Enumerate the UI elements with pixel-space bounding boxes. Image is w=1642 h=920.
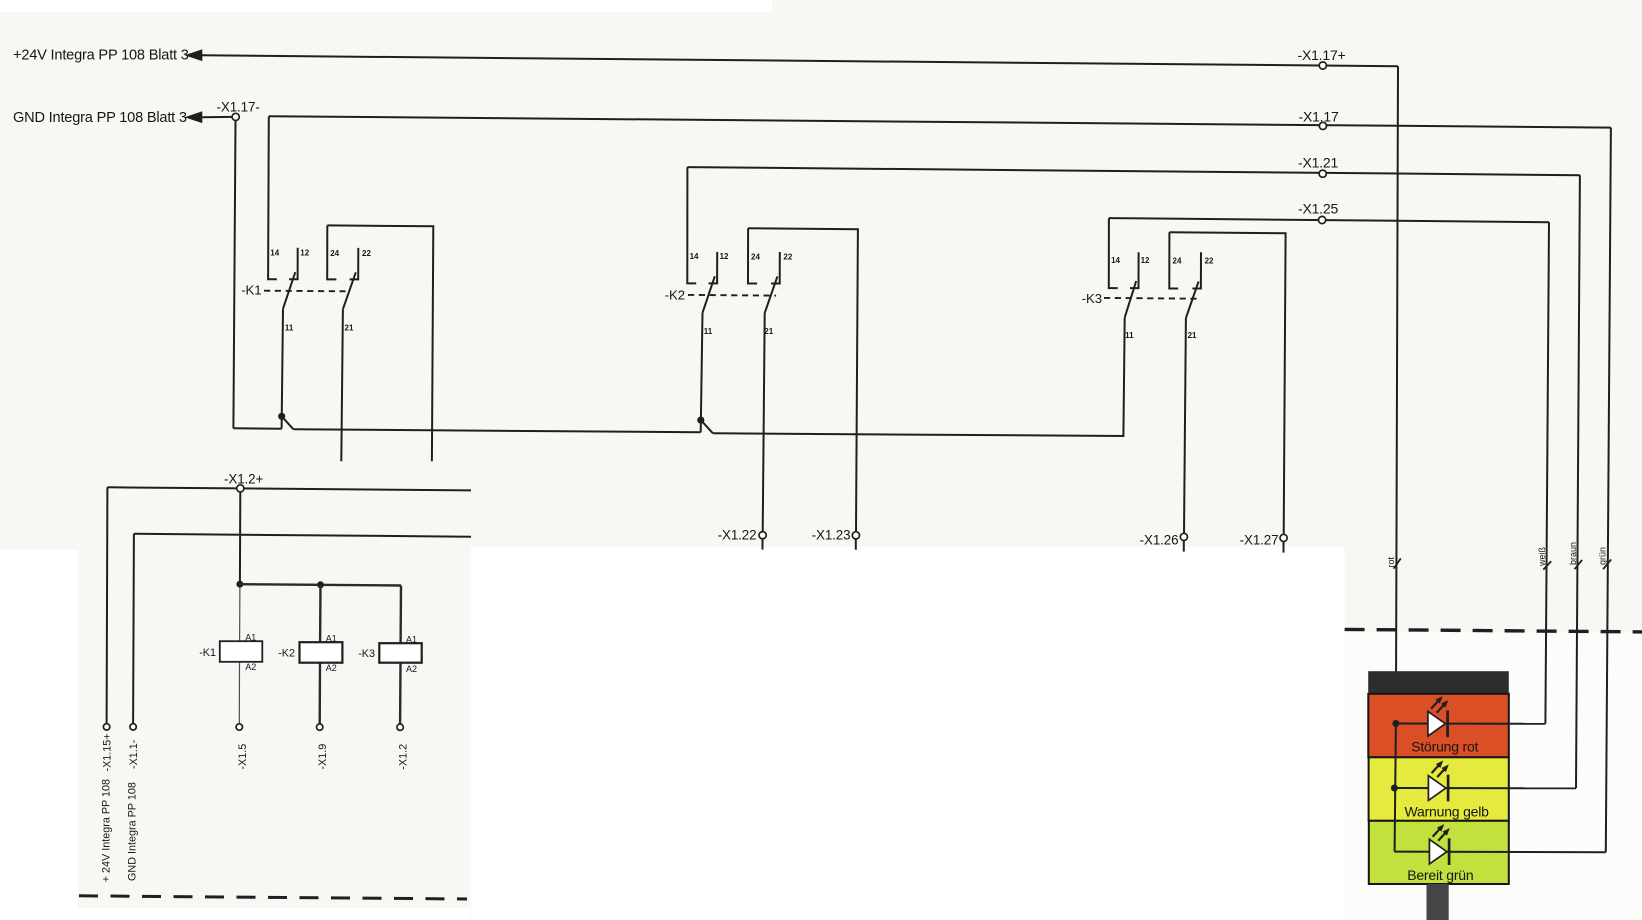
wire gruen vertical (to green lamp)	[1606, 128, 1611, 853]
svg-text:-X1.23: -X1.23	[812, 528, 851, 543]
relay K1 contact terminal 24 riser	[327, 225, 336, 279]
svg-text:-X1.26: -X1.26	[1140, 533, 1179, 548]
relay K3 contact terminal 24 riser	[1169, 232, 1178, 288]
relay K2 contact terminal 24 riser	[748, 228, 757, 283]
svg-text:-X1.25: -X1.25	[1298, 201, 1338, 217]
relay K3 contact arm 1	[1125, 281, 1137, 318]
relay K1 contact terminal 12 stub	[289, 248, 298, 279]
svg-text:-X1.27: -X1.27	[1240, 533, 1279, 548]
wire K1 pin 11 down	[282, 309, 283, 429]
relay K2 contact arm 1	[703, 276, 715, 313]
svg-text:A2: A2	[245, 662, 256, 672]
svg-text:24: 24	[751, 253, 760, 262]
svg-text:A2: A2	[326, 663, 337, 673]
junction node red lamp	[1392, 720, 1399, 727]
wire braun vertical (to yellow lamp)	[1576, 175, 1580, 788]
svg-text:-K2: -K2	[278, 648, 295, 660]
wire GND horizontal 2	[134, 534, 471, 537]
svg-text:-K1: -K1	[199, 647, 216, 659]
svg-text:22: 22	[362, 249, 371, 258]
terminal -X1.1-	[130, 724, 136, 730]
wire tower inner vertical	[1395, 724, 1396, 852]
relay K3 actuation dashed line	[1104, 297, 1197, 300]
relay K2 contact terminal 12 stub	[709, 252, 718, 284]
svg-text:-X1.17+: -X1.17+	[1298, 47, 1346, 63]
svg-text:Warnung gelb: Warnung gelb	[1405, 803, 1490, 819]
svg-text:-X1.15+: -X1.15+	[102, 733, 114, 771]
svg-text:-X1.5: -X1.5	[237, 744, 249, 770]
wire stub below -X1.23	[855, 539, 857, 550]
relay K1 contact terminal 14 riser	[268, 116, 277, 279]
coil K2	[300, 642, 343, 663]
terminal -X1.23	[852, 532, 859, 539]
svg-text:22: 22	[1205, 257, 1214, 266]
wire stub below -X1.27	[1283, 542, 1285, 553]
svg-text:14: 14	[690, 252, 699, 261]
wire K1 bracket top and right	[327, 225, 433, 461]
sheet reference arrow +24V	[185, 49, 203, 61]
terminal -X1.26	[1180, 533, 1187, 540]
sheet reference arrow GND	[185, 111, 203, 123]
relay K2 contact terminal 14 riser	[687, 167, 696, 283]
svg-text:-X1.1-: -X1.1-	[128, 739, 140, 769]
relay K2 contact arm 2	[765, 276, 778, 313]
svg-text:A1: A1	[245, 633, 256, 643]
svg-text:+24V Integra PP 108 Blatt 3: +24V Integra PP 108 Blatt 3	[13, 48, 189, 64]
svg-text:+ 24V Integra PP 108: + 24V Integra PP 108	[101, 779, 113, 882]
svg-text:11: 11	[1125, 331, 1134, 340]
wire stub below -X1.22	[762, 539, 764, 550]
LED red	[1428, 711, 1446, 736]
wire K2 pin 21 down to -X1.22	[763, 313, 765, 532]
wire -X1.25 horizontal	[1109, 218, 1549, 222]
terminal -X1.2	[397, 724, 403, 730]
signal tower green lamp	[1369, 821, 1509, 884]
node -X1.17+	[1319, 62, 1326, 69]
svg-text:-X1.17-: -X1.17-	[217, 100, 260, 115]
svg-text:12: 12	[300, 248, 309, 257]
wire left vertical 2 (GND feed)	[132, 534, 135, 724]
relay K2 contact terminal 22 stub	[771, 252, 780, 284]
wire GND horizontal to right edge	[269, 116, 1611, 127]
wire weiss vertical (to red lamp)	[1545, 222, 1549, 724]
terminal -X1.9	[317, 724, 323, 730]
wire coil feed vertical	[239, 492, 241, 584]
terminal -X1.22	[759, 532, 766, 539]
svg-text:-K1: -K1	[241, 283, 261, 298]
svg-text:-K3: -K3	[358, 648, 375, 660]
node -X1.17	[1319, 122, 1326, 129]
svg-text:14: 14	[1111, 256, 1120, 265]
signal tower red lamp	[1368, 694, 1509, 758]
svg-text:24: 24	[330, 249, 339, 258]
LED green	[1429, 839, 1447, 864]
wire K2 bracket top and right to -X1.23	[748, 228, 858, 531]
wire rot vertical (+24V down to tower red lamp)	[1396, 66, 1398, 723]
wire green lamp row	[1395, 851, 1606, 854]
wire -X1.21 horizontal	[687, 167, 1580, 175]
wire from -X1.17- down to bus	[233, 121, 235, 429]
wire +24V horizontal	[202, 55, 1398, 66]
wire K3 coil lead lower	[399, 663, 402, 724]
svg-text:-X1.17: -X1.17	[1299, 109, 1339, 125]
wire K3 pin 21 down to -X1.26	[1184, 318, 1186, 533]
wire bus middle segment	[293, 429, 700, 432]
wire coil bus horizontal	[240, 584, 401, 585]
svg-text:weiß: weiß	[1537, 546, 1547, 567]
wire K3 coil drop	[399, 586, 402, 644]
terminal -X1.5	[236, 724, 242, 730]
svg-text:Bereit grün: Bereit grün	[1407, 867, 1473, 883]
junction node yellow lamp	[1391, 785, 1398, 792]
svg-text:-X1.22: -X1.22	[718, 528, 757, 543]
svg-text:21: 21	[345, 323, 354, 332]
junction node coil bus 1	[236, 581, 243, 588]
svg-text:24: 24	[1173, 257, 1182, 266]
svg-text:-X1.9: -X1.9	[317, 744, 329, 770]
svg-text:A1: A1	[326, 634, 337, 644]
coil circuit: wire -X1.2+ horizontal	[107, 487, 471, 490]
svg-text:-X1.21: -X1.21	[1298, 155, 1338, 171]
wire stub below -X1.26	[1183, 541, 1185, 552]
relay K3 contact terminal 14 riser	[1109, 218, 1118, 288]
wire bus right segment to K3	[713, 318, 1125, 436]
wire yellow lamp row	[1394, 787, 1576, 789]
svg-text:11: 11	[285, 323, 294, 332]
terminal -X1.17-	[232, 113, 239, 120]
relay K1 contact terminal 22 stub	[350, 248, 359, 280]
svg-text:A2: A2	[406, 664, 417, 674]
signal tower stem	[1427, 884, 1449, 920]
junction node at K1 pin 11	[278, 413, 285, 420]
svg-text:grün: grün	[1598, 547, 1608, 565]
svg-text:-K2: -K2	[665, 288, 685, 303]
terminal -X1.2+	[237, 485, 244, 492]
terminal -X1.15+	[103, 724, 109, 730]
node -X1.21	[1319, 170, 1326, 177]
wire GND to terminal	[202, 116, 232, 118]
relay K2 actuation dashed line	[688, 294, 776, 297]
relay K3 contact terminal 12 stub	[1130, 252, 1139, 288]
svg-text:21: 21	[1188, 331, 1197, 340]
junction node coil bus 2	[317, 581, 324, 588]
svg-text:21: 21	[764, 327, 773, 336]
terminal -X1.27	[1280, 534, 1287, 541]
svg-text:braun: braun	[1568, 542, 1578, 565]
svg-text:GND Integra PP 108: GND Integra PP 108	[127, 782, 139, 881]
wire bus left segment	[233, 427, 281, 429]
coil K3	[379, 643, 421, 663]
relay K1 contact arm 1	[283, 272, 295, 309]
relay K3 contact arm 2	[1186, 281, 1199, 318]
svg-text:12: 12	[720, 252, 729, 261]
svg-text:-X1.2: -X1.2	[398, 744, 410, 770]
wire junction diagonal K1	[282, 416, 294, 429]
svg-text:12: 12	[1141, 256, 1150, 265]
node -X1.25	[1319, 216, 1326, 223]
wire K1 pin 21 down	[341, 309, 343, 461]
dashed boundary bottom-left	[79, 896, 467, 899]
wire K3 bracket top and right to -X1.27	[1169, 232, 1285, 534]
svg-text:GND Integra PP 108 Blatt 3: GND Integra PP 108 Blatt 3	[13, 110, 187, 126]
signal tower yellow lamp	[1369, 757, 1509, 821]
wire left vertical 1 (+24V feed)	[106, 487, 109, 723]
wire red lamp row	[1396, 723, 1546, 725]
svg-text:11: 11	[704, 327, 713, 336]
signal tower cap	[1368, 671, 1509, 694]
coil K1	[220, 641, 262, 662]
svg-text:-X1.2+: -X1.2+	[224, 471, 264, 486]
wire K2 pin 11 down	[701, 313, 703, 433]
svg-text:14: 14	[270, 248, 279, 257]
svg-text:A1: A1	[406, 635, 417, 645]
wire K2 coil leads	[319, 585, 322, 642]
wire K1 coil leads (thin)	[239, 587, 241, 641]
relay K1 contact arm 2	[343, 272, 356, 309]
wire junction diagonal K2	[701, 420, 713, 433]
svg-text:22: 22	[783, 253, 792, 262]
LED yellow	[1428, 776, 1446, 801]
junction node at K2 pin 11	[697, 417, 704, 424]
relay K3 contact terminal 22 stub	[1192, 252, 1201, 288]
svg-text:-K3: -K3	[1082, 291, 1102, 306]
relay K1 actuation dashed line	[264, 290, 346, 293]
dashed boundary at tower	[1345, 629, 1642, 632]
svg-text:Störung rot: Störung rot	[1411, 738, 1478, 754]
